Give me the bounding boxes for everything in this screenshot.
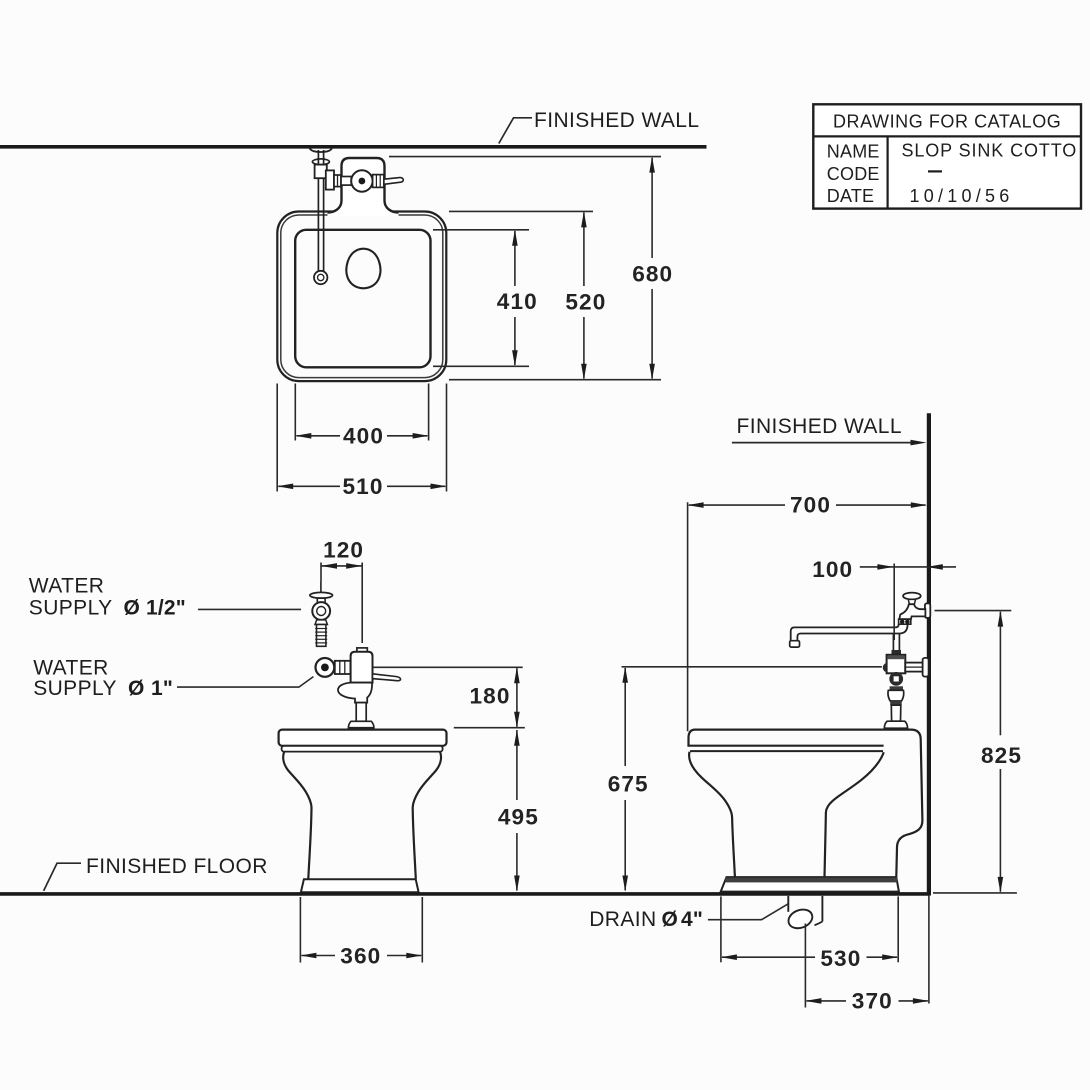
dim 510 extension lines (277, 384, 446, 492)
svg-text:825: 825 (981, 743, 1022, 768)
flush valve body circle (plan) (351, 170, 372, 191)
stop valve 1/2 assembly (310, 582, 333, 647)
faucet (side view) (790, 593, 931, 648)
dim 680 extension line (389, 156, 661, 158)
dim 400 extension lines (295, 384, 428, 441)
dim 370 line and arrows (805, 998, 929, 1004)
svg-text:SUPPLY: SUPPLY (29, 597, 113, 620)
dim 495 text (498, 804, 539, 829)
drain centreline extension (370 left) (804, 924, 806, 1008)
dim 120 extension lines (321, 563, 362, 644)
dim 400 line and arrows (295, 433, 428, 439)
sink side view: trapway line (825, 752, 884, 877)
svg-text:510: 510 (343, 474, 384, 499)
dim 410 text (497, 289, 538, 314)
sink outer rim (plan) (277, 212, 446, 382)
dim 825 line and arrows (998, 611, 1004, 893)
dim 825 top extension line (935, 610, 1012, 612)
svg-text:410: 410 (497, 289, 538, 314)
supply escutcheon at wall (plan) (310, 148, 333, 153)
dim 680 text (632, 261, 673, 286)
dim 675 line and arrows (622, 667, 628, 892)
svg-text:360: 360 (340, 943, 381, 968)
svg-text:520: 520 (565, 289, 606, 314)
svg-text:Ø: Ø (662, 908, 679, 931)
dim 120 text (323, 537, 364, 562)
dim 120 line and arrows (321, 563, 362, 569)
title block header text (833, 112, 1061, 132)
dim 410 line and arrows (512, 230, 518, 366)
svg-text:495: 495 (498, 804, 539, 829)
label WATER SUPPLY 1/2 (29, 575, 186, 620)
dim 180 line and arrows (514, 667, 520, 727)
leader for drain (708, 904, 788, 920)
svg-text:FINISHED WALL: FINISHED WALL (534, 109, 699, 132)
dim 370 text (852, 989, 893, 1014)
label FINISHED WALL (right) (737, 415, 902, 438)
drain pipe below floor (786, 896, 823, 932)
svg-text:DATE: DATE (827, 186, 874, 206)
svg-text:4": 4" (681, 908, 703, 931)
dim 825 text (981, 743, 1022, 768)
svg-text:Ø: Ø (128, 677, 145, 700)
floor line (0, 892, 930, 896)
label FINISHED WALL (top) (534, 109, 699, 132)
flush valve (side view, right) (883, 650, 929, 728)
dim 510 text (343, 474, 384, 499)
right nut (plan) (373, 175, 384, 188)
arm tube (plan) (341, 177, 351, 186)
flush valve (front view, lower-left) (316, 648, 401, 728)
dim 700 line and arrows (688, 502, 927, 508)
dim 360 text (340, 943, 381, 968)
extension line from valve centre (180 top) (336, 666, 523, 668)
title row DATE (827, 186, 1010, 206)
leader underline with arrow to wall (732, 440, 927, 446)
sink side view: plinth with dark band (721, 877, 899, 892)
svg-text:675: 675 (608, 772, 649, 797)
wall extension below floor (928, 896, 930, 1004)
dim 675 top extension line (622, 666, 882, 668)
sink front view: foot (301, 879, 419, 892)
handle (plan) (384, 178, 403, 185)
svg-text:DRAIN: DRAIN (589, 908, 656, 931)
dim 530 line and arrows (721, 954, 898, 960)
svg-text:NAME: NAME (827, 142, 880, 162)
svg-text:120: 120 (323, 537, 364, 562)
label DRAIN 4" (589, 908, 703, 931)
dim 530 text (820, 946, 861, 971)
label FINISHED FLOOR (86, 855, 268, 878)
svg-text:SLOP SINK COTTO: SLOP SINK COTTO (902, 141, 1077, 161)
dim 495 line and arrows (514, 730, 520, 892)
label WATER SUPPLY 1 (33, 657, 173, 701)
svg-text:SUPPLY: SUPPLY (33, 677, 117, 700)
wall line (right view) (927, 413, 931, 895)
dim 530 extension lines (721, 896, 898, 962)
dim 520 text (565, 289, 606, 314)
dim 180 text (470, 683, 511, 708)
sink side view: front outline (689, 752, 735, 877)
dim 100 line and arrows (outside style) (860, 564, 956, 570)
svg-text:FINISHED FLOOR: FINISHED FLOOR (86, 855, 268, 878)
riser flange (plan) (312, 159, 329, 165)
svg-text:Ø: Ø (124, 597, 141, 620)
arm nut (plan) (334, 175, 341, 187)
extension line sink top (180 bottom / 495 top) (454, 727, 525, 729)
drain egg-shaped hole (plan) (346, 249, 380, 289)
title row NAME (827, 141, 1077, 162)
dim 510 line and arrows (277, 484, 446, 490)
title block frame (813, 104, 1081, 208)
dim 700 text (790, 492, 831, 517)
dim 680 line and arrows (649, 157, 655, 380)
leader for water supply 1/2 (198, 608, 301, 610)
sink front view: top slab (279, 730, 447, 752)
svg-text:370: 370 (852, 989, 893, 1014)
leader for water supply 1 (177, 677, 313, 688)
riser pipe (plan) (318, 150, 323, 272)
svg-text:700: 700 (790, 492, 831, 517)
dim 360 extension lines (300, 897, 422, 963)
supply pipe from faucet to flush valve (893, 633, 899, 650)
svg-text:DRAWING FOR CATALOG: DRAWING FOR CATALOG (833, 112, 1061, 132)
leader for FINISHED WALL (top) (499, 118, 532, 144)
floor extension line (825 bottom) (933, 892, 1017, 894)
title row CODE (827, 164, 942, 184)
dim 410 extension lines (433, 230, 529, 366)
leader for FINISHED FLOOR (44, 863, 81, 891)
svg-text:1": 1" (151, 677, 173, 700)
sink side view: slab and back (689, 730, 923, 877)
escutcheon circle inside basin (plan) (314, 271, 327, 284)
svg-text:400: 400 (343, 424, 384, 449)
elbow block (plan) (326, 170, 334, 189)
spud tank outline behind sink (plan) (328, 158, 399, 216)
svg-text:WATER: WATER (29, 575, 105, 598)
dim 360 line and arrows (300, 953, 422, 959)
wall line (top plan view) (0, 145, 707, 149)
svg-text:CODE: CODE (827, 164, 880, 184)
svg-text:FINISHED WALL: FINISHED WALL (737, 415, 902, 438)
dim 100 text (812, 557, 853, 582)
svg-text:180: 180 (470, 683, 511, 708)
stop valve body (plan) (315, 165, 327, 179)
svg-text:1/2": 1/2" (146, 597, 186, 620)
svg-text:100: 100 (812, 557, 853, 582)
sink basin inner (plan) (295, 230, 430, 367)
svg-text:680: 680 (632, 261, 673, 286)
dim 520 extension lines (449, 211, 661, 379)
dim 520 line and arrows (581, 211, 587, 379)
svg-text:530: 530 (820, 946, 861, 971)
dim 675 text (608, 772, 649, 797)
dim 400 text (343, 424, 384, 449)
faucet axis extension line (893, 564, 895, 641)
sink front view: bowl and pedestal outline (283, 752, 441, 879)
dim 700 left extension line (687, 502, 689, 731)
